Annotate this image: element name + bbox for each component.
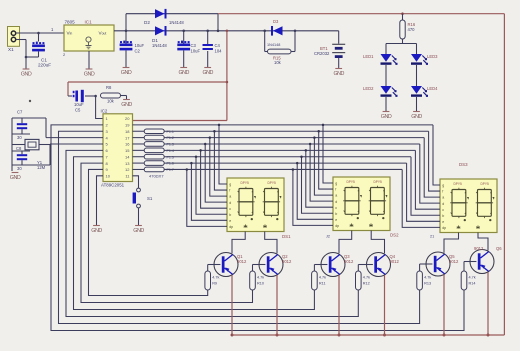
svg-text:e: e xyxy=(229,219,231,223)
svg-text:4.7k: 4.7k xyxy=(319,276,326,280)
svg-text:P1.5: P1.5 xyxy=(167,155,174,159)
svg-text:f: f xyxy=(229,189,230,193)
svg-text:4.7k: 4.7k xyxy=(469,276,476,280)
svg-text:f: f xyxy=(335,188,336,192)
svg-text:GND: GND xyxy=(202,70,213,76)
svg-text:R8: R8 xyxy=(106,85,112,90)
svg-text:LED3: LED3 xyxy=(427,54,438,59)
svg-text:b: b xyxy=(442,214,444,218)
svg-text:9012: 9012 xyxy=(449,259,459,264)
svg-text:f: f xyxy=(442,190,443,194)
svg-text:CR2032: CR2032 xyxy=(314,51,330,56)
svg-text:D3: D3 xyxy=(273,19,279,24)
svg-text:17: 17 xyxy=(125,135,130,140)
svg-text:14: 14 xyxy=(125,154,130,159)
svg-text:D2: D2 xyxy=(144,20,150,25)
svg-text:104: 104 xyxy=(215,49,223,54)
svg-text:20: 20 xyxy=(125,116,130,121)
svg-text:dp: dp xyxy=(442,226,446,230)
svg-text:a: a xyxy=(335,194,337,198)
svg-text:c: c xyxy=(229,207,231,211)
svg-text:LED4: LED4 xyxy=(427,86,438,91)
svg-text:Vout: Vout xyxy=(99,31,107,36)
svg-text:d: d xyxy=(442,202,444,206)
svg-text:DPY5: DPY5 xyxy=(347,180,356,184)
svg-text:10uF: 10uF xyxy=(74,102,84,107)
svg-text:12: 12 xyxy=(125,167,130,172)
svg-text:P1.3: P1.3 xyxy=(167,143,174,147)
svg-text:DS2: DS2 xyxy=(390,233,399,238)
svg-text:10: 10 xyxy=(106,174,111,179)
svg-text:DPY5: DPY5 xyxy=(241,181,250,185)
svg-text:Q6: Q6 xyxy=(496,246,502,251)
svg-text:IC1: IC1 xyxy=(85,20,93,25)
svg-text:10uF: 10uF xyxy=(191,49,201,54)
svg-text:P1.7: P1.7 xyxy=(167,168,174,172)
svg-text:GND: GND xyxy=(121,102,132,108)
svg-text:DPY5: DPY5 xyxy=(268,181,277,185)
svg-text:9012: 9012 xyxy=(282,259,292,264)
svg-text:b: b xyxy=(229,213,231,217)
svg-text:10k: 10k xyxy=(107,99,115,104)
svg-text:GND: GND xyxy=(333,71,344,77)
svg-text:C3: C3 xyxy=(191,43,197,48)
svg-text:220uF: 220uF xyxy=(38,63,51,68)
svg-text:470: 470 xyxy=(408,27,416,32)
svg-text:GND: GND xyxy=(133,228,144,234)
svg-text:13: 13 xyxy=(125,161,130,166)
svg-text:9012: 9012 xyxy=(344,259,354,264)
svg-text:GND: GND xyxy=(10,175,21,181)
svg-text:R12: R12 xyxy=(363,282,370,286)
svg-text:R10: R10 xyxy=(257,282,264,286)
svg-text:Vin: Vin xyxy=(67,31,73,36)
svg-text:GND: GND xyxy=(84,71,95,77)
svg-text:S1: S1 xyxy=(147,196,153,201)
svg-text:c: c xyxy=(335,206,337,210)
svg-text:7805: 7805 xyxy=(65,20,76,25)
svg-text:g: g xyxy=(335,182,337,186)
svg-text:dp: dp xyxy=(229,225,233,229)
svg-text:9012: 9012 xyxy=(237,259,247,264)
svg-text:C2: C2 xyxy=(135,49,141,54)
svg-text:10k: 10k xyxy=(274,60,282,65)
svg-text:dp: dp xyxy=(335,224,339,228)
svg-text:12M: 12M xyxy=(37,165,46,170)
svg-text:g: g xyxy=(229,183,231,187)
svg-text:IC2: IC2 xyxy=(101,109,108,114)
svg-text:GND: GND xyxy=(411,114,422,120)
svg-text:DS1: DS1 xyxy=(282,234,291,239)
svg-text:R14: R14 xyxy=(469,282,476,286)
svg-text:P1.1: P1.1 xyxy=(167,130,174,134)
svg-text:DPY5: DPY5 xyxy=(374,180,383,184)
svg-text:1N4148: 1N4148 xyxy=(169,20,184,25)
svg-text:AT89C2051: AT89C2051 xyxy=(101,183,125,188)
svg-text:d: d xyxy=(229,201,231,205)
svg-text:30: 30 xyxy=(17,135,22,140)
svg-text:C4: C4 xyxy=(215,43,221,48)
svg-text:16: 16 xyxy=(125,142,130,147)
svg-text:GND: GND xyxy=(21,71,32,77)
svg-text:9012: 9012 xyxy=(390,259,400,264)
svg-text:C7: C7 xyxy=(17,110,23,115)
svg-text:g: g xyxy=(442,184,444,188)
svg-text:19: 19 xyxy=(125,123,130,128)
svg-text:P1.6: P1.6 xyxy=(167,162,174,166)
svg-text:GND: GND xyxy=(178,70,189,76)
svg-text:4.7k: 4.7k xyxy=(424,276,431,280)
svg-text:GND: GND xyxy=(121,70,132,76)
svg-text:C8: C8 xyxy=(16,146,22,151)
svg-text:1N4148: 1N4148 xyxy=(152,43,167,48)
svg-text:c: c xyxy=(442,208,444,212)
svg-text:a: a xyxy=(442,196,444,200)
svg-text:LED2: LED2 xyxy=(363,86,374,91)
svg-text:9012: 9012 xyxy=(474,246,484,251)
svg-text:4.7k: 4.7k xyxy=(212,276,219,280)
svg-text:DPY5: DPY5 xyxy=(454,182,463,186)
svg-text:b: b xyxy=(335,212,337,216)
svg-text:R13: R13 xyxy=(424,282,431,286)
svg-text:4.7k: 4.7k xyxy=(363,276,370,280)
svg-text:10uF: 10uF xyxy=(135,43,145,48)
svg-text:C5: C5 xyxy=(75,108,81,113)
svg-text:J2: J2 xyxy=(326,235,330,239)
svg-text:15: 15 xyxy=(125,148,130,153)
svg-text:R11: R11 xyxy=(319,282,326,286)
svg-text:18: 18 xyxy=(125,129,130,134)
svg-text:1N4148: 1N4148 xyxy=(267,43,280,47)
svg-text:LED1: LED1 xyxy=(363,54,374,59)
svg-text:DS3: DS3 xyxy=(459,162,468,167)
svg-text:R9: R9 xyxy=(212,282,217,286)
svg-text:470ΩX7: 470ΩX7 xyxy=(149,174,164,179)
svg-text:DPY5: DPY5 xyxy=(481,182,490,186)
svg-text:e: e xyxy=(442,220,444,224)
svg-text:a: a xyxy=(229,195,231,199)
svg-text:P1.2: P1.2 xyxy=(167,136,174,140)
svg-text:30: 30 xyxy=(17,166,22,171)
svg-text:GND: GND xyxy=(381,114,392,120)
svg-text:21: 21 xyxy=(430,235,434,239)
svg-text:P1.4: P1.4 xyxy=(167,149,174,153)
svg-text:d: d xyxy=(335,200,337,204)
svg-text:4.7k: 4.7k xyxy=(257,276,264,280)
svg-text:X1: X1 xyxy=(8,47,14,52)
svg-text:GND: GND xyxy=(91,228,102,234)
svg-text:e: e xyxy=(335,218,337,222)
